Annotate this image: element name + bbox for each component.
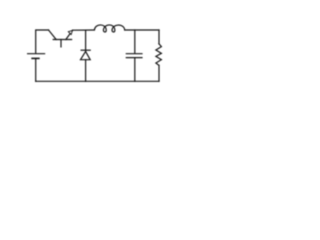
wire battery to bottom rail xyxy=(35,59,37,81)
wire top rail right segment xyxy=(125,29,159,31)
wire top rail middle segment xyxy=(73,29,95,31)
wire capacitor to bottom rail xyxy=(134,58,136,81)
capacitor C1 xyxy=(126,54,142,58)
diode D1 xyxy=(81,50,91,60)
wire bottom rail xyxy=(36,80,159,82)
wire diode to bottom rail xyxy=(85,60,87,82)
wire resistor top lead xyxy=(158,30,160,44)
wire diode tap xyxy=(85,30,87,51)
wire top rail left segment xyxy=(36,30,49,53)
resistor R1 xyxy=(156,44,162,66)
wire resistor bottom lead xyxy=(158,65,160,81)
wire capacitor tap xyxy=(134,30,136,53)
inductor L1 xyxy=(94,25,124,32)
battery V1 xyxy=(28,54,45,59)
transistor Q1 xyxy=(49,30,73,47)
